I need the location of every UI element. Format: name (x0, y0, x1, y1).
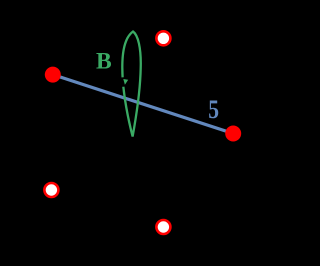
svg-text:B: B (96, 49, 112, 75)
svg-text:5: 5 (208, 96, 219, 124)
